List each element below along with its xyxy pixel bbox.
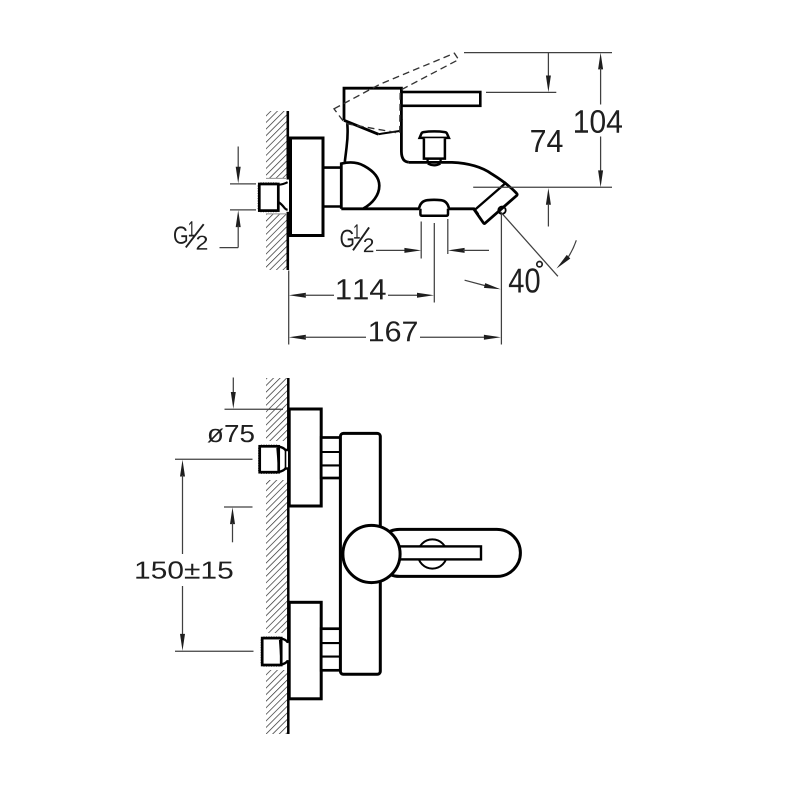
dimension 150 plus-minus 15 (bottom view) [136,459,253,651]
dimension G1/2 middle with arrows (top view) [376,219,489,259]
shower outlet collar G1/2 (top view) [420,209,448,216]
joystick ball (bottom view) [343,525,400,582]
handle neck (top view) [345,120,409,163]
handle block (top view) [344,88,401,134]
G1/2 threaded inlet nipple (top view) [258,182,288,212]
spout end face inner edge (top view) [476,182,507,209]
wall face line (top view) [286,111,289,270]
dimension 104 (top view) [575,53,622,188]
upper union thread block (bottom view) [321,438,340,479]
spout tip extension line (top view) [500,214,502,345]
dimension 167 (top view) [289,321,501,341]
lower supply nipple (bottom view) [261,637,289,667]
wall face line (bottom view) [287,378,290,734]
label G1/2 middle (top view) [341,224,374,252]
label G1/2 left (top view) [174,221,207,249]
dimension: extension line at dashed lever tip (top view) [464,52,612,54]
dimension diameter 75 (bottom view) [208,378,284,543]
lever capsule (bottom view) [376,529,520,576]
dimension G1/2 left (top view) [220,147,257,248]
connector tube escutcheon to body (top view) [323,168,341,207]
lever arm (top view) [401,92,480,106]
dashed handle in raised position (top view) [334,53,459,133]
cartridge dome left edge (top view) [340,162,343,208]
wall opening edges (top view) [266,178,287,214]
lever rod (bottom view) [398,546,481,559]
lever screw circle (bottom view) [418,539,447,568]
upper supply nipple (bottom view) [258,445,288,474]
mixer body (bottom view) [340,433,380,674]
cartridge dome arc (top view) [342,163,380,209]
wall (top view) hatched strip [266,111,288,270]
wall escutcheon flange (top view) [291,138,324,236]
diverter knob (top view) [420,131,449,165]
dimension: extension line at lever top (top view) [486,91,556,93]
dimension 74 (top view) [531,53,562,227]
mixer body and spout (top view) [341,162,517,223]
dimension 114 (top view) [289,271,434,345]
lower union thread block (bottom view) [321,629,340,671]
upper escutcheon (bottom view) [289,409,321,506]
wall (bottom view) hatched strip [266,378,288,734]
dimension: extension line at spout outlet level (top view) [473,186,612,188]
aerator center line (top view) [433,223,435,303]
lower escutcheon (bottom view) [289,602,321,699]
shower outlet bump (top view) [419,200,449,209]
dimension 40 degrees (top view) [465,212,577,293]
